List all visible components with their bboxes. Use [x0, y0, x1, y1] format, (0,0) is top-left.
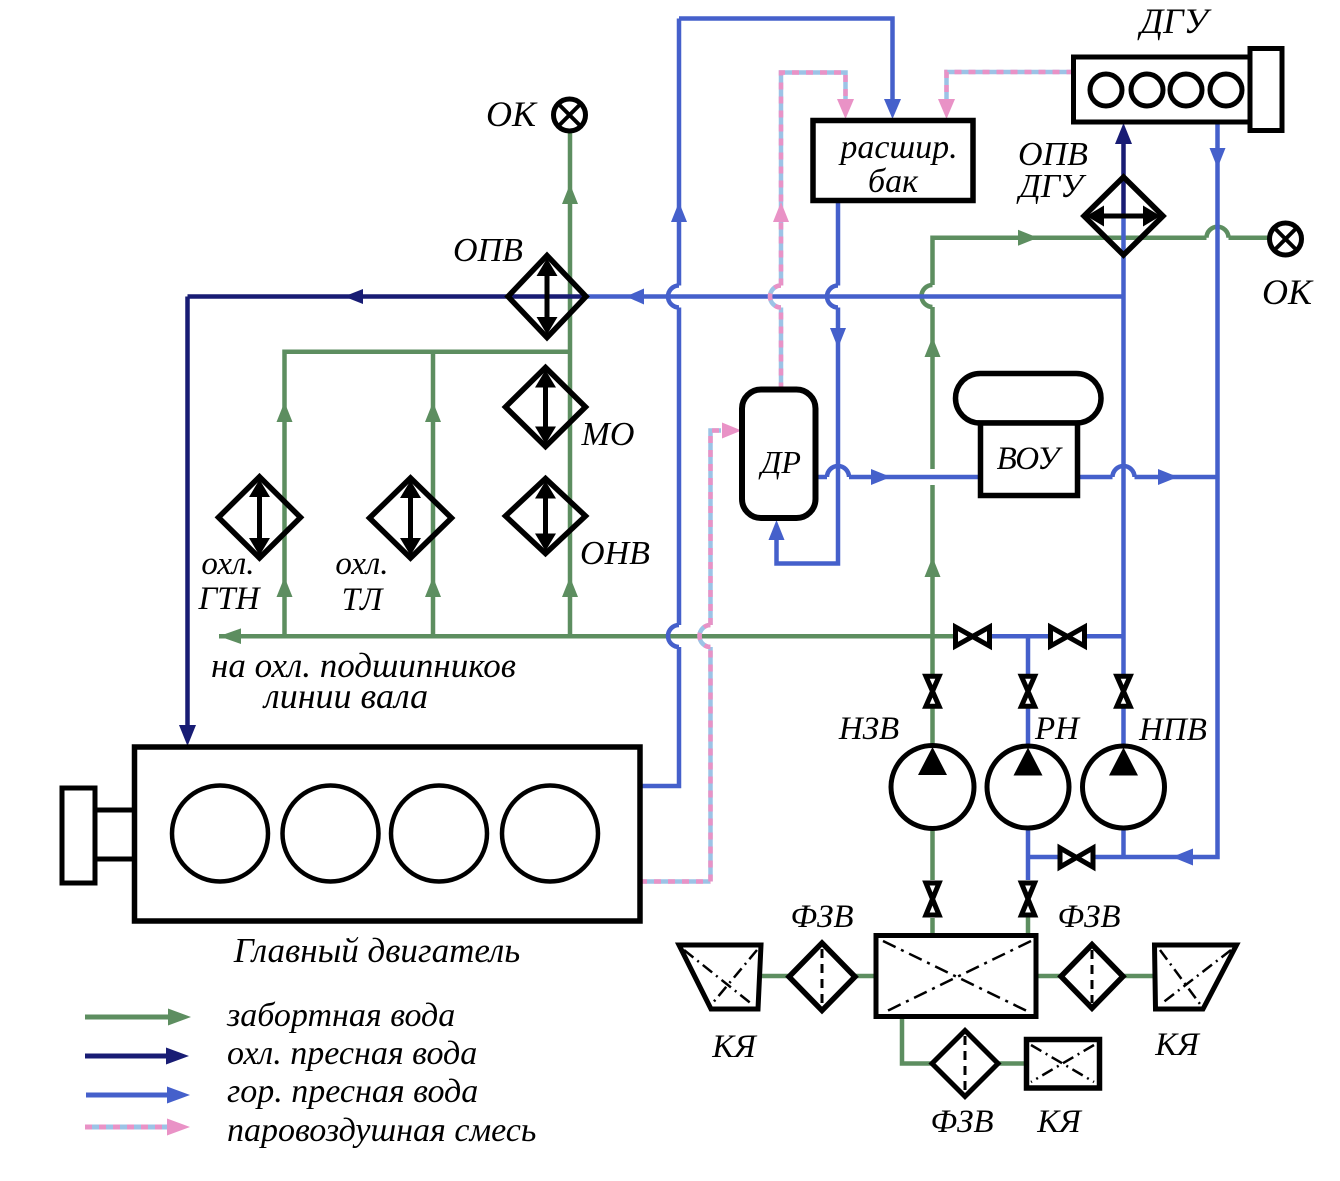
- legend arrow seawater: [85, 1009, 191, 1026]
- DGU cylinder 4: [1210, 74, 1242, 106]
- wire hop B over y636: [668, 625, 679, 647]
- overboard discharge OK left: [554, 99, 586, 131]
- main engine cylinder 4: [502, 786, 598, 882]
- svg-text:ДГУ: ДГУ: [1016, 168, 1087, 205]
- WIRES-BLUE: [586, 19, 1218, 881]
- svg-text:ФЗВ: ФЗВ: [1057, 899, 1120, 935]
- arrow up pink on C: [773, 202, 789, 222]
- arrow down pink into tank left: [837, 99, 854, 119]
- svg-text:МО: МО: [581, 416, 635, 453]
- valve bowtie valve-line 2: [1051, 627, 1085, 646]
- wire green main riser F: [930, 485, 935, 746]
- svg-text:ВОУ: ВОУ: [997, 441, 1064, 477]
- arrow right green to OK-right: [1018, 230, 1038, 246]
- wire blue top header to tank: [679, 19, 893, 102]
- overboard discharge OK right: [1270, 223, 1302, 255]
- arrow down on D: [830, 328, 846, 348]
- WIRES-NAVY: [188, 140, 1124, 727]
- heat exchanger OPV DGU: [1084, 177, 1163, 255]
- heat exchanger TL: [370, 478, 452, 558]
- wire hop green header over blue vert x1217.5: [1207, 227, 1229, 238]
- svg-text:ОК: ОК: [486, 94, 538, 134]
- pump NPV: [1083, 746, 1165, 828]
- svg-text:ГТН: ГТН: [198, 581, 262, 617]
- wire pink DGU to tank: [947, 72, 1074, 101]
- pump RN: [987, 746, 1069, 828]
- DGU cylinder 1: [1090, 74, 1122, 106]
- valve bowtie suction line: [1060, 848, 1093, 867]
- wire blue DR outlet y477: [816, 475, 1218, 480]
- svg-text:ОПВ: ОПВ: [453, 232, 523, 269]
- svg-text:НПВ: НПВ: [1138, 712, 1207, 748]
- svg-text:охл.: охл.: [335, 546, 388, 582]
- wire hop y477 over D: [827, 466, 849, 477]
- svg-text:Главный двигатель: Главный двигатель: [233, 931, 520, 970]
- wire green valve-line segment: [933, 634, 972, 639]
- arrow right on y477 second: [1158, 469, 1178, 485]
- valve gate RN column: [1021, 676, 1034, 706]
- svg-text:ОНВ: ОНВ: [580, 535, 650, 572]
- arrow right pink into DR: [722, 423, 742, 439]
- sea chest strainer box: [876, 936, 1036, 1017]
- wire blue DGU outlet I: [1028, 122, 1218, 857]
- arrow down into tank: [884, 99, 901, 119]
- valve gate NZV lower: [926, 883, 939, 915]
- arrow up riser OK-left: [562, 184, 578, 204]
- wire blue RN feed: [1026, 636, 1031, 745]
- svg-text:ОК: ОК: [1262, 272, 1314, 312]
- valve gate NZV column: [926, 676, 939, 706]
- wire blue tank outlet D: [777, 201, 839, 564]
- wire green bottom branch: [902, 1018, 1026, 1064]
- heat exchanger GTN: [219, 477, 301, 558]
- wire blue RN discharge low: [1026, 828, 1031, 881]
- wire green bottom header to shaft bearings: [219, 634, 933, 639]
- pump NZV: [891, 746, 974, 829]
- svg-text:забортная вода: забортная вода: [226, 997, 455, 1034]
- svg-text:охл. пресная вода: охл. пресная вода: [227, 1035, 477, 1072]
- svg-text:КЯ: КЯ: [711, 1029, 758, 1065]
- filter FZV right: [1061, 945, 1123, 1009]
- arrow left on y296: [626, 289, 644, 305]
- DGU cylinder 2: [1131, 74, 1163, 106]
- wire pink engine outlet to DR: [640, 431, 721, 882]
- filter FZV left: [789, 943, 855, 1011]
- arrow up riser TL lower: [425, 577, 441, 597]
- wire green RN suction lower: [1026, 915, 1031, 936]
- WIRES-GREEN: [219, 131, 1270, 1064]
- svg-text:бак: бак: [868, 163, 919, 200]
- arrow left bottom header: [219, 628, 241, 644]
- main engine cylinder 3: [391, 786, 487, 882]
- arrow up riser F high: [925, 337, 941, 357]
- ARROWS-NAVY: [179, 123, 1132, 746]
- arrow up into DR bottom: [769, 520, 785, 540]
- svg-text:КЯ: КЯ: [1036, 1104, 1083, 1140]
- wire green riser TL: [431, 352, 436, 636]
- wire blue main horizontal y296: [586, 294, 1124, 299]
- legend arrow cooling freshwater: [85, 1048, 189, 1065]
- main engine body: [135, 747, 641, 921]
- svg-text:расшир.: расшир.: [838, 129, 957, 166]
- wire green sea-chest links: [762, 974, 1155, 979]
- arrow up riser GTN lower: [277, 577, 293, 597]
- wire blue vertical H x1123.5: [1121, 216, 1126, 746]
- heat exchanger OPV: [508, 256, 586, 338]
- arrow up riser ONV lower: [562, 577, 578, 597]
- arrow up on B: [671, 202, 687, 222]
- main engine cylinder 1: [172, 786, 268, 882]
- filter FZV bottom: [932, 1031, 998, 1097]
- main engine cylinder 2: [283, 786, 379, 882]
- arrow left navy y296: [344, 289, 363, 304]
- svg-text:НЗВ: НЗВ: [838, 711, 899, 747]
- svg-text:ТЛ: ТЛ: [342, 582, 384, 618]
- valve gate NPV column: [1117, 676, 1130, 706]
- arrow down pink into tank right: [938, 99, 955, 119]
- valve gate RN lower: [1021, 883, 1034, 915]
- wire hop y477 over H: [1113, 466, 1135, 477]
- wire hop B over y296: [668, 286, 679, 308]
- arrow up navy into DGU: [1115, 123, 1132, 144]
- svg-text:линии вала: линии вала: [262, 676, 428, 716]
- DGU cylinder 3: [1170, 74, 1202, 106]
- VOU evaporator dome: [956, 374, 1102, 424]
- wire green header upper: [285, 352, 571, 636]
- heat exchanger MO: [506, 368, 586, 447]
- arrow up riser TL upper: [425, 402, 441, 422]
- svg-text:КЯ: КЯ: [1154, 1027, 1201, 1063]
- svg-text:ДР: ДР: [758, 444, 801, 480]
- wire blue vertical B x679: [640, 19, 679, 787]
- svg-text:РН: РН: [1034, 711, 1081, 747]
- ARROWS-PINK: [722, 99, 955, 439]
- wire blue valve-line: [972, 634, 1124, 639]
- heat exchanger ONV: [506, 479, 586, 554]
- valve bowtie valve-line 1: [956, 627, 990, 646]
- kingston box KYa left: [679, 945, 761, 1009]
- wire hop D over y296: [827, 286, 838, 308]
- arrow left on suction y855: [1172, 849, 1193, 866]
- arrow down on I: [1210, 148, 1226, 168]
- DGU engine body: [1074, 49, 1283, 131]
- arrow up riser F low: [925, 557, 941, 577]
- ARROWS-BLUE: [626, 99, 1226, 866]
- wire blue NPV discharge low: [1121, 828, 1126, 858]
- kingston box KYa right: [1155, 945, 1237, 1009]
- WIRES-PINK steam-air mixture: [640, 72, 1074, 882]
- legend arrow steam-air: [85, 1119, 190, 1136]
- wire navy vertical to main engine: [185, 297, 190, 728]
- svg-text:ДГУ: ДГУ: [1137, 1, 1211, 41]
- expansion tank box: [813, 121, 973, 201]
- arrow up riser GTN upper: [277, 402, 293, 422]
- ARROWS-GREEN: [219, 184, 1038, 644]
- legend arrow hot freshwater: [86, 1087, 190, 1104]
- svg-text:ФЗВ: ФЗВ: [790, 899, 853, 935]
- arrow down navy into engine: [179, 725, 196, 746]
- kingston box KYa bottom: [1027, 1040, 1100, 1089]
- wire navy horizontal y296: [188, 294, 587, 299]
- wire green NZV suction: [930, 828, 935, 936]
- wire hop green riser over blue y296: [922, 285, 933, 307]
- svg-text:паровоздушная смесь: паровоздушная смесь: [227, 1112, 536, 1149]
- svg-text:ФЗВ: ФЗВ: [930, 1104, 993, 1140]
- wire green riser to OK-left: [568, 131, 573, 636]
- svg-text:охл.: охл.: [201, 546, 254, 582]
- DR deaerator vessel: [742, 390, 816, 519]
- arrow right on y477 first: [871, 469, 891, 485]
- wire navy DGU feed: [1121, 140, 1126, 216]
- svg-text:гор. пресная вода: гор. пресная вода: [227, 1073, 478, 1110]
- wire pink DR top to tank: [770, 73, 846, 390]
- main engine shaft flange: [62, 788, 135, 883]
- VOU evaporator box: [981, 423, 1078, 496]
